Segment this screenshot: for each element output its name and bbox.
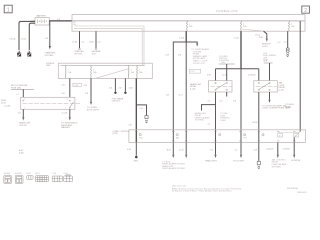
fuse block box (multi-purpose fuse) bbox=[58, 63, 152, 78]
svg-text:WASHER: WASHER bbox=[61, 126, 70, 129]
wire ECU out 258 to condenser bbox=[258, 142, 260, 161]
wire switch out left bbox=[22, 109, 24, 117]
svg-text:C-W: C-W bbox=[253, 150, 257, 152]
svg-text:35: 35 bbox=[219, 135, 221, 137]
wire fusible link 1 main down bbox=[185, 42, 187, 142]
arrow 278 bbox=[277, 155, 279, 158]
text TO list bbox=[191, 48, 209, 65]
svg-text:2.0-B: 2.0-B bbox=[179, 37, 184, 39]
J/B box (fusible link block) bbox=[72, 15, 305, 32]
wire relay A feed bbox=[215, 69, 217, 81]
wire branch to theft alarm bbox=[202, 105, 216, 111]
wire ECU out 136 to ground dot bbox=[135, 142, 137, 155]
svg-text:(7-B): (7-B) bbox=[89, 42, 94, 44]
svg-text:0.5-W: 0.5-W bbox=[62, 113, 67, 115]
text theft alarm outputs bbox=[162, 160, 185, 170]
bus inside fuse block bbox=[61, 64, 145, 66]
wire battery positive to J/B bbox=[49, 20, 72, 22]
svg-text:SYSTEM): SYSTEM) bbox=[195, 120, 204, 122]
pin label 42 bbox=[243, 133, 245, 135]
fusible link coil symbol bbox=[286, 48, 289, 57]
relay B taillight relay bbox=[254, 81, 277, 92]
wire relay B out right arrow bbox=[269, 92, 271, 100]
svg-text:A-10: A-10 bbox=[36, 172, 40, 175]
svg-text:2L-W: 2L-W bbox=[179, 150, 184, 152]
svg-text:SYSTEM: SYSTEM bbox=[45, 55, 54, 57]
tag C-06 bbox=[73, 83, 81, 87]
wire ECU out 294 arrow bbox=[293, 142, 295, 154]
pin marks wire 173 bbox=[172, 131, 175, 141]
break line relay A coil source bbox=[219, 63, 235, 65]
svg-text:2-W: 2-W bbox=[207, 74, 211, 76]
svg-text:2-R: 2-R bbox=[233, 101, 237, 103]
pin marks wire 136 bbox=[135, 131, 138, 141]
svg-text:2R-W: 2R-W bbox=[252, 122, 257, 124]
wire ECU out 278 arrow bbox=[277, 142, 279, 154]
svg-text:(7-B): (7-B) bbox=[73, 42, 78, 44]
connector tick generator bbox=[95, 48, 97, 49]
svg-text:SYSTEM): SYSTEM) bbox=[272, 166, 281, 168]
svg-text:4-G: 4-G bbox=[18, 113, 22, 115]
wire relay B out left bbox=[258, 92, 260, 142]
lighting switch box bbox=[21, 97, 80, 109]
svg-text:HI DRIVE: HI DRIVE bbox=[292, 160, 301, 162]
svg-text:0.85-B: 0.85-B bbox=[10, 38, 17, 40]
svg-text:FUSIBLE LINK: FUSIBLE LINK bbox=[216, 9, 238, 13]
pin label 50 bbox=[294, 134, 299, 137]
fuse C3 bbox=[128, 65, 134, 78]
svg-text:CIRCUIT: CIRCUIT bbox=[19, 125, 28, 127]
wire bus to fuse box feed A bbox=[74, 26, 144, 65]
wire fuse1 to dimmer switch bbox=[69, 78, 71, 97]
arrow switch left bbox=[22, 117, 24, 120]
page marker 1 bbox=[4, 5, 12, 13]
svg-text:2L-Y: 2L-Y bbox=[179, 95, 184, 97]
svg-text:LIGHT: LIGHT bbox=[220, 120, 227, 122]
relay feed bus bbox=[216, 68, 259, 70]
condenser symbol bbox=[145, 116, 148, 123]
fuse C4 bbox=[137, 65, 143, 78]
ECU box combination control bbox=[129, 130, 306, 143]
arrow to accessory feed bbox=[196, 43, 198, 46]
svg-text:5: 5 bbox=[24, 99, 25, 101]
relay A headlight relay bbox=[209, 81, 233, 92]
svg-text:MB941624: MB941624 bbox=[298, 192, 307, 194]
arrow to remote mirror bbox=[266, 39, 268, 42]
dot end fuse3 bbox=[114, 92, 116, 94]
text tail control bbox=[272, 158, 287, 168]
wire fusible link 2 down bbox=[240, 31, 242, 69]
wire switch out right bbox=[69, 109, 71, 117]
svg-text:2.0-B: 2.0-B bbox=[21, 38, 26, 40]
wire tee left branch bbox=[173, 42, 186, 142]
wire battery negative stub bbox=[31, 20, 36, 22]
pin marks wire 240 bbox=[239, 131, 242, 141]
svg-text:FUSE [J/B]: FUSE [J/B] bbox=[11, 87, 21, 89]
svg-text:THEFT-ALARM SYSTEM: THEFT-ALARM SYSTEM bbox=[162, 167, 185, 170]
stub line bbox=[11, 88, 34, 90]
svg-text:Wire color code: Wire color code bbox=[172, 186, 187, 188]
svg-text:2-R: 2-R bbox=[45, 38, 49, 40]
svg-text:42: 42 bbox=[244, 135, 246, 137]
pin label 49 bbox=[278, 134, 283, 137]
pin label 41 bbox=[139, 133, 141, 135]
wire relay B feed bbox=[269, 69, 271, 81]
arrow 294 bbox=[293, 155, 295, 158]
connector A-05 body bbox=[15, 175, 23, 183]
svg-text:B): B) bbox=[73, 24, 75, 26]
svg-text:MITSUBISHI: MITSUBISHI bbox=[287, 188, 298, 190]
pin label 35 bbox=[219, 133, 221, 135]
svg-text:40-27: 40-27 bbox=[1, 103, 7, 105]
svg-text:FOG LIGHT: FOG LIGHT bbox=[233, 160, 245, 162]
fusible link F3 bbox=[289, 21, 296, 31]
wire J/B to dedicated fuse arrow bbox=[264, 31, 267, 38]
text from column switch A bbox=[219, 56, 230, 64]
battery B1 bbox=[35, 15, 49, 25]
pin marks wire 258 bbox=[258, 131, 261, 141]
wire battery to ground 2 bbox=[29, 23, 35, 50]
svg-text:49: 49 bbox=[279, 135, 281, 137]
arrow to tail lights bbox=[268, 100, 270, 103]
pin marks wire 186 bbox=[185, 131, 188, 141]
svg-text:50: 50 bbox=[295, 135, 297, 137]
wire relay A out left bbox=[215, 92, 217, 142]
ground symbol body bbox=[17, 51, 21, 57]
svg-text:41: 41 bbox=[139, 135, 141, 137]
wire coil feed relay A bbox=[226, 64, 228, 81]
svg-text:LINK: LINK bbox=[46, 65, 51, 67]
svg-text:Sb:Sky blue V:Violet: Sb:Sky blue V:Violet W:White Y:Yellow (B… bbox=[172, 190, 232, 193]
fusible link F2 bbox=[241, 21, 248, 31]
connector tick A-09 bbox=[28, 50, 30, 51]
wire fuse4 stub bbox=[124, 78, 126, 91]
wire ECU out 186 arrow bbox=[185, 142, 187, 154]
wire diagonal inside fuse block bbox=[96, 69, 129, 78]
wire battery to ground 1 bbox=[19, 21, 35, 50]
svg-text:A-09: A-09 bbox=[27, 172, 31, 175]
svg-text:(L-03): (L-03) bbox=[279, 89, 285, 91]
text theft alarm horn bbox=[195, 112, 210, 122]
wire coil feed relay B bbox=[269, 63, 271, 81]
connector C-03 body bbox=[52, 176, 62, 182]
svg-text:GND: GND bbox=[139, 138, 144, 140]
text sub fusible link ref bbox=[263, 53, 277, 62]
wire branch down to charging bbox=[49, 21, 51, 46]
wire fuse block main drop bbox=[135, 78, 137, 142]
svg-text:TOR: TOR bbox=[92, 54, 97, 56]
pin marks wire 294 bbox=[293, 131, 296, 141]
fuse C2 bbox=[91, 65, 97, 78]
svg-text:2.0-B: 2.0-B bbox=[234, 37, 239, 39]
ground dot bbox=[135, 156, 138, 159]
pin label 58 bbox=[262, 133, 264, 135]
svg-text:CIRCUIT: CIRCUIT bbox=[112, 101, 121, 103]
svg-text:3: 3 bbox=[67, 99, 68, 101]
text passing control bbox=[220, 112, 230, 122]
page marker 2 bbox=[302, 6, 310, 14]
svg-text:1: 1 bbox=[24, 108, 25, 110]
svg-text:BATTERY: BATTERY bbox=[37, 15, 47, 18]
svg-text:7: 7 bbox=[65, 108, 66, 110]
svg-text:4-(B): 4-(B) bbox=[19, 153, 24, 155]
wire J/B to fusible link coil bbox=[287, 31, 289, 47]
svg-text:58: 58 bbox=[262, 135, 264, 137]
wire stub to lighting switch bbox=[22, 89, 24, 97]
wire J/B to generator bbox=[95, 31, 97, 48]
arrow 173 bbox=[172, 155, 174, 158]
svg-text:2: 2 bbox=[304, 8, 307, 14]
pin marks wire 278 bbox=[277, 131, 280, 141]
connector A-10 body bbox=[36, 176, 49, 182]
pin label 17 bbox=[176, 133, 178, 135]
svg-text:2-W: 2-W bbox=[165, 54, 169, 56]
connector A-09 body bbox=[27, 176, 33, 180]
svg-text:(L-04): (L-04) bbox=[190, 88, 196, 90]
connector A-03 body bbox=[4, 175, 12, 183]
svg-text:A-05(B): A-05(B) bbox=[15, 172, 22, 175]
break line relay B coil source bbox=[264, 62, 273, 64]
connector tick starter bbox=[78, 48, 80, 49]
svg-text:HEADLIGHT: HEADLIGHT bbox=[205, 159, 217, 162]
svg-text:2-R: 2-R bbox=[57, 19, 61, 21]
svg-text:1.25B-W: 1.25B-W bbox=[248, 74, 256, 76]
svg-text:B-W: B-W bbox=[167, 150, 171, 152]
svg-text:C-03: C-03 bbox=[52, 173, 56, 175]
svg-text:FOG: FOG bbox=[243, 138, 247, 140]
arrow 186 bbox=[185, 155, 187, 158]
pin marks wire 215 bbox=[214, 131, 217, 141]
wire branch to condenser bbox=[136, 105, 146, 116]
connector tick A-21 bbox=[18, 50, 20, 51]
wire ECU out 240 arrow bbox=[240, 142, 242, 154]
connector C-06 body bbox=[64, 175, 73, 182]
wire fusible link 1 down bbox=[185, 31, 187, 42]
wire relay A out right bbox=[226, 92, 228, 97]
arrow to charging system bbox=[49, 46, 51, 49]
svg-text:STOP LIGHT: STOP LIGHT bbox=[87, 110, 100, 112]
ground symbol engine bbox=[27, 51, 31, 57]
fuse C1 bbox=[65, 65, 71, 78]
svg-text:17: 17 bbox=[176, 135, 178, 137]
svg-text:14-B: 14-B bbox=[129, 88, 134, 90]
arrow 240 bbox=[240, 155, 242, 158]
svg-text:CONT: CONT bbox=[262, 46, 268, 48]
arrow to horn bbox=[90, 102, 92, 105]
J/B pass-through tag bbox=[189, 69, 200, 73]
wire ECU out 215 arrow bbox=[215, 142, 217, 154]
svg-text:DOOR LOCK: DOOR LOCK bbox=[193, 63, 206, 65]
fusible link F1 bbox=[187, 21, 194, 31]
condenser symbol right bbox=[257, 161, 260, 168]
arrow switch right bbox=[69, 117, 71, 120]
svg-text:(C-06): (C-06) bbox=[5, 106, 11, 108]
wire J/B to starter bbox=[79, 31, 81, 48]
svg-text:1.25B-W: 1.25B-W bbox=[266, 149, 274, 151]
dot end fuse4 bbox=[124, 92, 126, 94]
wire fuse2 to horn arrow bbox=[90, 78, 92, 101]
arrow 215 bbox=[214, 155, 216, 158]
wire J/B right long drop bbox=[299, 21, 301, 132]
svg-text:1.25B-B: 1.25B-B bbox=[282, 149, 290, 151]
svg-text:MOTOR: MOTOR bbox=[75, 54, 83, 56]
wire fuse3 stub bbox=[114, 78, 116, 91]
svg-text:GRN: GRN bbox=[133, 161, 138, 163]
svg-text:A-03(B): A-03(B) bbox=[4, 172, 11, 175]
svg-text:1: 1 bbox=[7, 8, 10, 14]
wire fuse2 elbow to remote feed bbox=[242, 29, 264, 31]
bus wire inside J/B bbox=[72, 20, 305, 22]
pin link line bbox=[278, 131, 300, 133]
wire tee right branch to arrow bbox=[186, 42, 197, 43]
wire bus to fuse box feed B bbox=[74, 29, 142, 66]
svg-text:2L-W: 2L-W bbox=[222, 74, 227, 76]
wire ECU out 173 arrow bbox=[172, 142, 174, 154]
svg-text:(P/W): (P/W) bbox=[112, 133, 117, 135]
svg-text:BEAM: BEAM bbox=[285, 106, 291, 109]
